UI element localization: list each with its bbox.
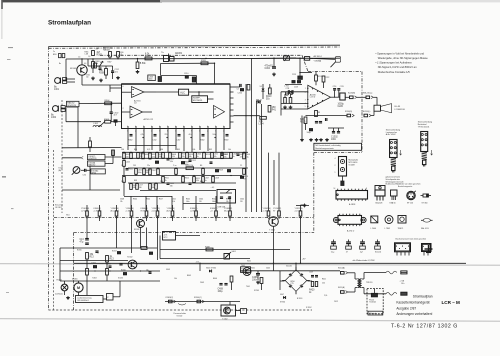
- svg-text:Kassettentonbandgerät: Kassettentonbandgerät: [396, 301, 429, 305]
- svg-text:S401: S401: [232, 251, 236, 253]
- svg-text:R60: R60: [134, 149, 137, 151]
- svg-text:R1310: R1310: [121, 270, 126, 272]
- svg-text:2,5V/0,1A: 2,5V/0,1A: [55, 293, 63, 296]
- svg-text:C304: C304: [265, 68, 271, 70]
- svg-text:3,3k: 3,3k: [172, 156, 175, 158]
- svg-text:1302: 1302: [51, 117, 57, 119]
- svg-text:C222: C222: [325, 77, 329, 79]
- svg-text:5: 5: [305, 106, 306, 108]
- svg-text:LW 1301: LW 1301: [55, 207, 62, 209]
- svg-text:L 2004: L 2004: [371, 228, 376, 230]
- svg-text:C30: C30: [83, 175, 86, 177]
- svg-text:SF 126: SF 126: [407, 203, 413, 205]
- svg-text:5: 5: [159, 130, 160, 132]
- svg-text:C211: C211: [286, 88, 290, 90]
- svg-text:TR1201: TR1201: [366, 282, 372, 284]
- svg-text:Aufn.: Aufn.: [167, 209, 172, 212]
- svg-text:9551: 9551: [66, 215, 70, 217]
- svg-text:zu BL: zu BL: [190, 210, 195, 212]
- svg-text:2: 2: [123, 108, 124, 110]
- svg-text:2: 2: [135, 130, 136, 132]
- svg-text:9451: 9451: [247, 261, 251, 263]
- svg-text:C412: C412: [334, 301, 338, 303]
- svg-text:Diodenbuchse Kontakte 1/5: Diodenbuchse Kontakte 1/5: [378, 70, 411, 74]
- svg-text:8: 8: [366, 188, 367, 190]
- svg-text:4: 4: [223, 130, 224, 132]
- svg-text:3: 3: [305, 99, 306, 101]
- svg-text:1: 1: [127, 130, 128, 132]
- svg-text:R62: R62: [209, 149, 212, 151]
- svg-text:14: 14: [334, 188, 336, 190]
- svg-text:K410(A): K410(A): [338, 267, 345, 270]
- svg-text:L2160P010: L2160P010: [395, 109, 406, 111]
- svg-text:220: 220: [199, 201, 202, 203]
- svg-text:47n: 47n: [182, 156, 185, 158]
- svg-text:1: 1: [199, 130, 200, 132]
- svg-text:330: 330: [170, 185, 173, 187]
- svg-text:R8: R8: [318, 112, 320, 114]
- svg-text:0,1μ: 0,1μ: [331, 251, 334, 253]
- svg-text:15k: 15k: [120, 201, 123, 203]
- svg-text:1/2: 1/2: [134, 103, 137, 105]
- svg-text:C2: C2: [237, 89, 239, 91]
- svg-text:DIN45511: DIN45511: [89, 158, 97, 160]
- svg-text:S1303: S1303: [134, 229, 139, 231]
- svg-text:LCR – M: LCR – M: [442, 300, 461, 305]
- svg-text:L304: L304: [259, 123, 265, 125]
- svg-text:68k: 68k: [189, 156, 192, 158]
- svg-text:T100mA: T100mA: [369, 301, 376, 304]
- svg-text:C220: C220: [338, 106, 344, 108]
- svg-text:SAL 41 B: SAL 41 B: [421, 227, 429, 230]
- svg-text:Bestückungsseite: Bestückungsseite: [398, 185, 412, 188]
- svg-text:220: 220: [165, 134, 168, 136]
- svg-text:100n: 100n: [186, 201, 190, 203]
- svg-text:TPA 21: TPA 21: [398, 227, 404, 230]
- svg-text:1k: 1k: [121, 165, 123, 167]
- svg-text:R421: R421: [322, 279, 326, 281]
- svg-text:C219: C219: [340, 86, 344, 88]
- svg-text:C1304: C1304: [106, 264, 111, 266]
- svg-text:0,6: 0,6: [84, 63, 86, 65]
- svg-text:C312: C312: [153, 140, 157, 142]
- svg-text:KF508: KF508: [70, 68, 77, 70]
- svg-text:R64: R64: [200, 181, 203, 183]
- svg-text:4: 4: [335, 158, 336, 160]
- svg-text:4,7k: 4,7k: [164, 234, 168, 236]
- svg-text:R604: R604: [133, 199, 137, 201]
- svg-text:T-6-2 Nr 127/87 1302 G: T-6-2 Nr 127/87 1302 G: [391, 323, 458, 329]
- svg-text:Änderungen vorbehalten!: Änderungen vorbehalten!: [396, 312, 432, 316]
- svg-text:ENTZERR.: ENTZERR.: [193, 100, 203, 102]
- svg-text:110⋯: 110⋯: [401, 283, 406, 285]
- svg-text:6: 6: [167, 130, 168, 132]
- svg-text:47n: 47n: [224, 156, 227, 158]
- svg-text:zu Motor: zu Motor: [126, 209, 134, 212]
- svg-text:1k: 1k: [97, 253, 99, 255]
- svg-text:K220(B): K220(B): [348, 93, 355, 95]
- svg-text:220: 220: [322, 283, 325, 285]
- svg-text:S 9552: S 9552: [306, 307, 311, 309]
- svg-text:+9V: +9V: [302, 259, 306, 261]
- svg-text:1,6: 1,6: [88, 56, 90, 58]
- svg-text:NF-Verstärkerteil, vollständig: NF-Verstärkerteil, vollständig: [315, 144, 340, 147]
- svg-text:C60: C60: [121, 149, 124, 151]
- svg-text:C305: C305: [97, 66, 101, 68]
- svg-text:M: M: [77, 286, 80, 290]
- svg-text:R301: R301: [85, 52, 89, 54]
- svg-text:TH Gr.5/1201: TH Gr.5/1201: [418, 125, 430, 128]
- svg-text:S 1302: S 1302: [177, 315, 183, 317]
- svg-text:C310: C310: [184, 73, 188, 75]
- svg-text:2: 2: [335, 165, 336, 167]
- svg-text:6: 6: [123, 86, 124, 88]
- svg-text:C604: C604: [199, 199, 203, 201]
- svg-text:100n: 100n: [149, 79, 153, 81]
- svg-text:10k: 10k: [226, 201, 229, 203]
- svg-text:10k: 10k: [214, 156, 217, 158]
- svg-text:1n: 1n: [233, 156, 235, 158]
- svg-text:68k: 68k: [133, 187, 136, 189]
- svg-text:SY360: SY360: [280, 302, 285, 304]
- svg-text:C312: C312: [192, 160, 196, 162]
- svg-text:R322: R322: [225, 140, 229, 142]
- svg-text:A-Nr. 5/602: A-Nr. 5/602: [386, 133, 396, 136]
- svg-text:Ausgabe 2/87: Ausgabe 2/87: [396, 306, 416, 310]
- svg-text:GL1201: GL1201: [286, 266, 292, 268]
- svg-text:• [ ] Spannungen bei Aufnahme:: • [ ] Spannungen bei Aufnahme:: [376, 61, 413, 65]
- svg-text:K1303(C): K1303(C): [166, 297, 174, 299]
- svg-text:L 703: L 703: [284, 86, 288, 88]
- svg-text:56k: 56k: [96, 63, 99, 65]
- svg-text:100μ: 100μ: [307, 132, 311, 134]
- svg-text:4,7k: 4,7k: [152, 156, 155, 158]
- svg-text:• Spannungen in Volt bei Nennb: • Spannungen in Volt bei Nennbetrieb und: [376, 51, 425, 55]
- svg-text:R317: R317: [145, 56, 151, 58]
- svg-text:R213: R213: [318, 76, 322, 78]
- svg-text:2: 2: [207, 130, 208, 132]
- svg-text:C405: C405: [126, 162, 130, 164]
- svg-text:R604: R604: [146, 199, 150, 201]
- svg-text:470: 470: [244, 178, 247, 180]
- svg-text:Wiedergabe, ohne NF-Signal geg: Wiedergabe, ohne NF-Signal gegen Masse: [378, 56, 429, 60]
- svg-text:AN302(L): AN302(L): [103, 47, 112, 50]
- svg-text:100n: 100n: [213, 134, 217, 136]
- svg-text:zu Netz: zu Netz: [263, 209, 269, 212]
- svg-text:B 50k: B 50k: [140, 63, 147, 65]
- svg-text:R307: R307: [108, 62, 112, 64]
- svg-text:R216: R216: [300, 121, 306, 123]
- svg-text:R1305: R1305: [77, 250, 82, 252]
- svg-text:T 1302: T 1302: [222, 319, 227, 321]
- svg-text:T401: T401: [246, 286, 250, 288]
- svg-text:330: 330: [139, 187, 142, 189]
- svg-text:ALC: ALC: [180, 91, 185, 94]
- svg-text:C301: C301: [86, 75, 90, 77]
- svg-text:C405: C405: [266, 268, 270, 270]
- svg-text:C75: C75: [291, 283, 294, 285]
- svg-text:Stromlaufplan: Stromlaufplan: [48, 19, 91, 26]
- svg-text:C403: C403: [200, 282, 204, 284]
- svg-text:R402: R402: [129, 169, 133, 171]
- svg-text:V405 SY360: V405 SY360: [206, 268, 216, 270]
- svg-text:47: 47: [346, 251, 348, 253]
- svg-text:220: 220: [126, 156, 129, 158]
- svg-text:C63: C63: [160, 181, 163, 183]
- svg-text:15k: 15k: [140, 156, 143, 158]
- svg-text:100n: 100n: [331, 139, 337, 141]
- svg-text:1,6: 1,6: [78, 57, 80, 59]
- svg-text:R306: R306: [99, 72, 105, 74]
- svg-text:1301: 1301: [54, 89, 60, 91]
- svg-text:100n: 100n: [252, 279, 258, 281]
- svg-text:100n: 100n: [138, 172, 142, 174]
- svg-text:SP30: SP30: [92, 173, 96, 175]
- svg-text:B 9551: B 9551: [297, 298, 302, 300]
- svg-text:C307: C307: [152, 170, 156, 172]
- svg-text:R303: R303: [96, 61, 100, 63]
- svg-text:Buchsenansicht von oben gesehe: Buchsenansicht von oben gesehen: [396, 237, 427, 240]
- svg-text:BL 4Ω: BL 4Ω: [395, 106, 401, 108]
- svg-text:3,3k: 3,3k: [172, 201, 175, 203]
- svg-text:R408: R408: [205, 246, 210, 248]
- svg-text:L 7805: L 7805: [385, 228, 390, 230]
- svg-text:0,9: 0,9: [96, 49, 98, 51]
- svg-text:NF-Signal 1,0 kHz und 800mV an: NF-Signal 1,0 kHz und 800mV an: [378, 65, 417, 69]
- svg-text:R612: R612: [185, 178, 189, 180]
- svg-text:68k: 68k: [152, 187, 155, 189]
- svg-text:4,7k: 4,7k: [240, 156, 243, 158]
- svg-text:C216: C216: [333, 86, 337, 88]
- svg-text:A 1818: A 1818: [349, 203, 356, 206]
- svg-text:R305: R305: [226, 199, 230, 201]
- svg-text:10k: 10k: [228, 149, 231, 151]
- svg-text:4,7k: 4,7k: [141, 134, 144, 136]
- svg-text:R310: R310: [120, 52, 124, 54]
- svg-text:Y1308(A): Y1308(A): [314, 60, 322, 63]
- svg-text:(A): (A): [59, 169, 62, 172]
- svg-text:1n: 1n: [205, 180, 207, 182]
- svg-text:R608: R608: [219, 170, 223, 172]
- svg-text:10μ: 10μ: [146, 269, 149, 271]
- svg-text:R406: R406: [213, 278, 217, 280]
- svg-text:R305: R305: [145, 154, 149, 156]
- svg-text:100μ: 100μ: [218, 291, 224, 293]
- svg-text:C307: C307: [177, 140, 181, 142]
- svg-text:R61: R61: [177, 149, 180, 151]
- svg-text:LWS 0408 Bd.1: LWS 0408 Bd.1: [77, 300, 89, 302]
- svg-text:R60: R60: [160, 149, 163, 151]
- svg-text:9551: 9551: [142, 218, 146, 220]
- svg-text:Bestückungsvariante: Bestückungsvariante: [315, 147, 333, 150]
- svg-text:R6: R6: [200, 165, 202, 167]
- svg-text:Masse: Masse: [224, 210, 229, 212]
- svg-text:R219: R219: [206, 154, 210, 156]
- svg-text:7: 7: [175, 130, 176, 132]
- svg-text:ALC-Verst: ALC-Verst: [111, 209, 120, 212]
- svg-text:Laufwerksteuerung: Laufwerksteuerung: [77, 297, 92, 300]
- svg-text:100n: 100n: [212, 201, 216, 203]
- svg-text:C1: C1: [240, 165, 242, 167]
- svg-text:2x: 2x: [53, 51, 55, 53]
- svg-text:3: 3: [215, 130, 216, 132]
- svg-text:SC236: SC236: [118, 278, 123, 280]
- svg-text:4μ7: 4μ7: [360, 251, 363, 253]
- svg-text:R63: R63: [134, 180, 137, 182]
- svg-text:C611: C611: [172, 199, 176, 201]
- svg-text:3: 3: [143, 130, 144, 132]
- svg-text:6V Batt: 6V Batt: [141, 209, 148, 212]
- svg-text:DIN41524: DIN41524: [67, 105, 77, 107]
- svg-text:47μ: 47μ: [246, 156, 249, 158]
- svg-text:T 1601: T 1601: [269, 230, 275, 232]
- svg-text:4: 4: [151, 130, 152, 132]
- svg-text:L2/3 D: L2/3 D: [310, 97, 316, 99]
- svg-text:1n: 1n: [197, 156, 199, 158]
- svg-text:V401: V401: [251, 268, 255, 270]
- svg-text:KBL260(-): KBL260(-): [362, 111, 371, 113]
- svg-text:22n: 22n: [147, 165, 150, 167]
- svg-text:1: 1: [335, 172, 336, 174]
- svg-text:R402: R402: [186, 199, 190, 201]
- svg-text:alle Widerstände 0,125W: alle Widerstände 0,125W: [353, 259, 375, 262]
- svg-text:R611 70k: R611 70k: [186, 165, 194, 167]
- svg-text:R402: R402: [201, 140, 205, 142]
- svg-text:1,8k: 1,8k: [192, 149, 195, 151]
- svg-text:S 0409: S 0409: [349, 165, 355, 167]
- svg-text:10k: 10k: [146, 172, 149, 174]
- svg-text:K1304(C): K1304(C): [194, 297, 202, 299]
- svg-text:F401: F401: [241, 269, 245, 271]
- svg-text:C608: C608: [215, 178, 219, 180]
- svg-text:10k: 10k: [174, 278, 177, 280]
- svg-text:1: 1: [305, 88, 306, 90]
- svg-text:H1301: H1301: [57, 280, 62, 282]
- svg-text:C61: C61: [133, 165, 136, 167]
- svg-text:47μ: 47μ: [159, 156, 162, 158]
- svg-text:R217: R217: [159, 199, 163, 201]
- svg-text:C409: C409: [309, 272, 313, 274]
- svg-text:R402: R402: [129, 140, 133, 142]
- svg-text:4,7k: 4,7k: [147, 149, 150, 151]
- svg-text:T1303: T1303: [92, 278, 97, 280]
- svg-text:Keramik: Keramik: [375, 250, 381, 253]
- svg-text:3,3k: 3,3k: [196, 180, 199, 182]
- svg-text:8: 8: [183, 130, 184, 132]
- svg-text:KSA 56: KSA 56: [390, 202, 396, 205]
- svg-text:NTC: NTC: [164, 237, 169, 239]
- svg-text:C410: C410: [238, 93, 242, 95]
- svg-text:Stromlaufplan: Stromlaufplan: [413, 295, 433, 299]
- svg-text:MA4052: MA4052: [89, 164, 96, 167]
- svg-text:2n2: 2n2: [121, 181, 124, 183]
- svg-text:220: 220: [240, 201, 243, 203]
- svg-text:B(C)528: B(C)528: [376, 203, 383, 205]
- svg-text:10n: 10n: [86, 77, 89, 79]
- svg-text:M1301: M1301: [72, 279, 78, 281]
- svg-text:C604: C604: [240, 199, 244, 201]
- svg-text:V403: V403: [166, 269, 170, 271]
- svg-text:SY345: SY345: [254, 290, 259, 292]
- svg-text:AN 3801-1: AN 3801-1: [314, 55, 323, 58]
- svg-text:C213: C213: [292, 74, 296, 76]
- svg-text:9: 9: [191, 130, 192, 132]
- svg-text:A274D 2/2: A274D 2/2: [144, 118, 154, 121]
- svg-text:KBL220(+): KBL220(+): [363, 93, 373, 95]
- svg-text:V407: V407: [280, 294, 284, 296]
- svg-text:1k: 1k: [165, 180, 167, 182]
- svg-text:3,3k: 3,3k: [170, 161, 173, 163]
- svg-text:K411(A): K411(A): [338, 286, 345, 289]
- svg-text:R302: R302: [97, 54, 103, 56]
- svg-text:Bu: Bu: [59, 63, 61, 65]
- svg-text:C608: C608: [120, 199, 124, 201]
- svg-text:R41: R41: [272, 109, 277, 111]
- svg-text:T1302: T1302: [127, 257, 132, 259]
- svg-text:R405: R405: [187, 275, 191, 277]
- svg-text:2,2k: 2,2k: [324, 295, 327, 297]
- svg-text:V4: V4: [260, 86, 262, 88]
- svg-text:47n: 47n: [189, 134, 192, 136]
- svg-text:→0,1: →0,1: [210, 187, 214, 189]
- svg-text:C es: C es: [173, 165, 177, 167]
- svg-text:R322: R322: [212, 199, 216, 201]
- svg-text:zu Verst.: zu Verst.: [81, 209, 89, 212]
- svg-text:R1307: R1307: [112, 251, 117, 253]
- svg-text:C208: C208: [294, 87, 298, 89]
- svg-text:K260(D): K260(D): [345, 111, 353, 113]
- svg-text:SY 360: SY 360: [422, 203, 428, 205]
- svg-text:4,7k: 4,7k: [120, 54, 123, 56]
- svg-text:A 274 D: A 274 D: [347, 230, 355, 233]
- svg-text:AN303: AN303: [175, 52, 183, 55]
